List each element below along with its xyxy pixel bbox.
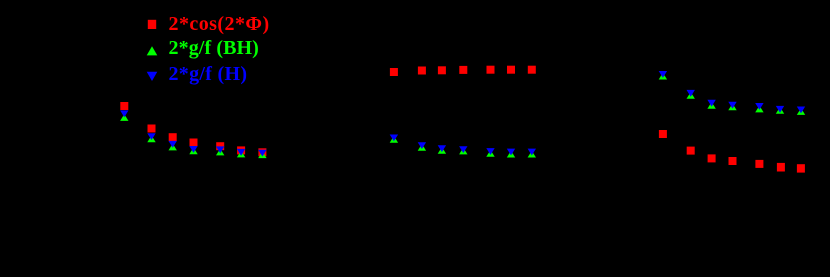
legend marker red square bbox=[148, 20, 156, 29]
panel 1 group 1 green up-triangle bbox=[120, 114, 128, 121]
panel 2 group 5 green up-triangle bbox=[486, 150, 494, 157]
panel 2 group 3 blue down-triangle bbox=[438, 145, 446, 152]
svg-text:2*cos(2*Φ): 2*cos(2*Φ) bbox=[169, 13, 270, 35]
panel 3 group 5 green up-triangle bbox=[755, 106, 763, 113]
panel 3 group 7 red square bbox=[797, 164, 805, 172]
panel 1 group 4 blue down-triangle bbox=[189, 146, 197, 153]
panel 1 group 1 blue down-triangle bbox=[120, 110, 128, 117]
panel 1 group 5 blue down-triangle bbox=[216, 146, 224, 153]
panel 2 group 7 red square bbox=[528, 66, 536, 74]
panel 3 group 2 blue down-triangle bbox=[687, 90, 695, 97]
panel 2 group 1 blue down-triangle bbox=[390, 135, 398, 142]
panel 1 group 7 blue down-triangle bbox=[258, 150, 266, 157]
panel 3 group 7 blue down-triangle bbox=[797, 107, 805, 114]
panel 3 group 3 green up-triangle bbox=[707, 102, 715, 109]
panel 2 group 4 green up-triangle bbox=[459, 148, 467, 155]
panel 3 group 2 green up-triangle bbox=[687, 92, 695, 99]
panel 3 group 1 blue down-triangle bbox=[659, 71, 667, 78]
panel 1 group 4 green up-triangle bbox=[189, 147, 197, 154]
panel 3 group 1 red square bbox=[659, 130, 667, 138]
panel 1 group 7 green up-triangle bbox=[258, 151, 266, 158]
panel 3 group 6 green up-triangle bbox=[776, 107, 784, 114]
panel 2 group 2 blue down-triangle bbox=[418, 142, 426, 149]
panel 2 group 5 blue down-triangle bbox=[486, 148, 494, 155]
panel 2 group 3 red square bbox=[438, 66, 446, 74]
panel 1 group 2 blue down-triangle bbox=[147, 133, 155, 140]
panel 2 group 6 green up-triangle bbox=[507, 151, 515, 158]
panel 2 group 3 green up-triangle bbox=[438, 147, 446, 154]
panel 3 group 2 red square bbox=[687, 147, 695, 155]
panel 3 group 5 red square bbox=[755, 160, 763, 168]
panel 2 group 1 green up-triangle bbox=[390, 136, 398, 143]
panel 2 group 6 red square bbox=[507, 66, 515, 74]
panel 1 group 6 blue down-triangle bbox=[237, 149, 245, 156]
panel 1 group 5 red square bbox=[216, 142, 224, 150]
panel 3 group 1 green up-triangle bbox=[659, 73, 667, 80]
panel 2 group 2 green up-triangle bbox=[418, 144, 426, 151]
panel 2 group 1 red square bbox=[390, 68, 398, 76]
panel 2 group 7 green up-triangle bbox=[528, 151, 536, 158]
panel 2 group 4 red square bbox=[459, 66, 467, 74]
panel 3 group 4 green up-triangle bbox=[728, 104, 736, 111]
panel 2 group 2 red square bbox=[418, 67, 426, 75]
panel 3 group 4 blue down-triangle bbox=[728, 102, 736, 109]
panel 2 group 5 red square bbox=[487, 66, 495, 74]
panel 3 group 7 green up-triangle bbox=[797, 108, 805, 115]
panel 1 group 3 blue down-triangle bbox=[169, 141, 177, 148]
panel 3 group 5 blue down-triangle bbox=[755, 103, 763, 110]
panel 3 group 3 blue down-triangle bbox=[707, 100, 715, 107]
panel 1 group 5 green up-triangle bbox=[216, 149, 224, 156]
legend marker green up-triangle bbox=[147, 46, 158, 55]
panel 3 group 4 red square bbox=[729, 157, 737, 165]
panel 2 group 7 blue down-triangle bbox=[528, 149, 536, 156]
panel 1 group 3 green up-triangle bbox=[169, 144, 177, 151]
panel 1 group 6 green up-triangle bbox=[237, 151, 245, 158]
legend marker blue down-triangle bbox=[147, 72, 158, 81]
panel 1 group 7 red square bbox=[258, 148, 266, 156]
panel 1 group 1 red square bbox=[120, 102, 128, 110]
panel 1 group 4 red square bbox=[190, 139, 198, 147]
panel 2 group 6 blue down-triangle bbox=[507, 149, 515, 156]
svg-text:2*g/f (H): 2*g/f (H) bbox=[169, 63, 248, 85]
panel 3 group 6 red square bbox=[777, 163, 785, 172]
panel 1 group 6 red square bbox=[237, 146, 245, 154]
panel 1 group 2 green up-triangle bbox=[147, 135, 155, 142]
panel 1 group 3 red square bbox=[169, 133, 177, 141]
panel 2 group 4 blue down-triangle bbox=[459, 146, 467, 153]
svg-text:2*g/f (BH): 2*g/f (BH) bbox=[169, 37, 259, 59]
panel 3 group 3 red square bbox=[708, 154, 716, 162]
panel 1 group 2 red square bbox=[148, 125, 156, 133]
panel 3 group 6 blue down-triangle bbox=[776, 106, 784, 113]
